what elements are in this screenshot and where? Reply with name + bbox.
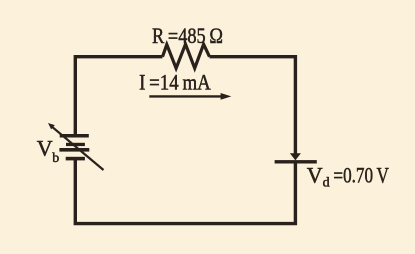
- variable-battery diagonal arrow shaft: [53, 127, 104, 170]
- svg-text:V: V: [307, 163, 323, 188]
- svg-text:R =485 Ω: R =485 Ω: [152, 23, 223, 48]
- battery VB plate 3 (long): [59, 148, 89, 152]
- battery VB plate 1 (long, top): [60, 134, 89, 138]
- diode D1 cathode bar: [275, 160, 317, 163]
- svg-text:d: d: [323, 176, 330, 191]
- battery VB plate 4 (short, bottom): [66, 157, 85, 161]
- svg-text:b: b: [52, 151, 59, 166]
- wire: right side below diode + bottom + left side up to battery bottom: [75, 159, 295, 224]
- current arrow I shaft: [149, 95, 222, 97]
- svg-text:=0.70 V: =0.70 V: [333, 163, 389, 188]
- wire: left side upper + top-left segment (battery top to resistor): [75, 57, 162, 136]
- diode D1 arrowhead (anode triangle pointing down): [290, 153, 301, 160]
- wire: top-right segment + right side down to diode: [210, 57, 296, 155]
- resistor R1 zigzag: [163, 44, 210, 68]
- current arrowhead: [221, 93, 232, 100]
- variable-battery arrowhead: [48, 123, 55, 129]
- battery VB plate 2 (short): [66, 143, 85, 146]
- svg-text:I =14 mA: I =14 mA: [139, 70, 211, 95]
- svg-text:V: V: [37, 136, 53, 161]
